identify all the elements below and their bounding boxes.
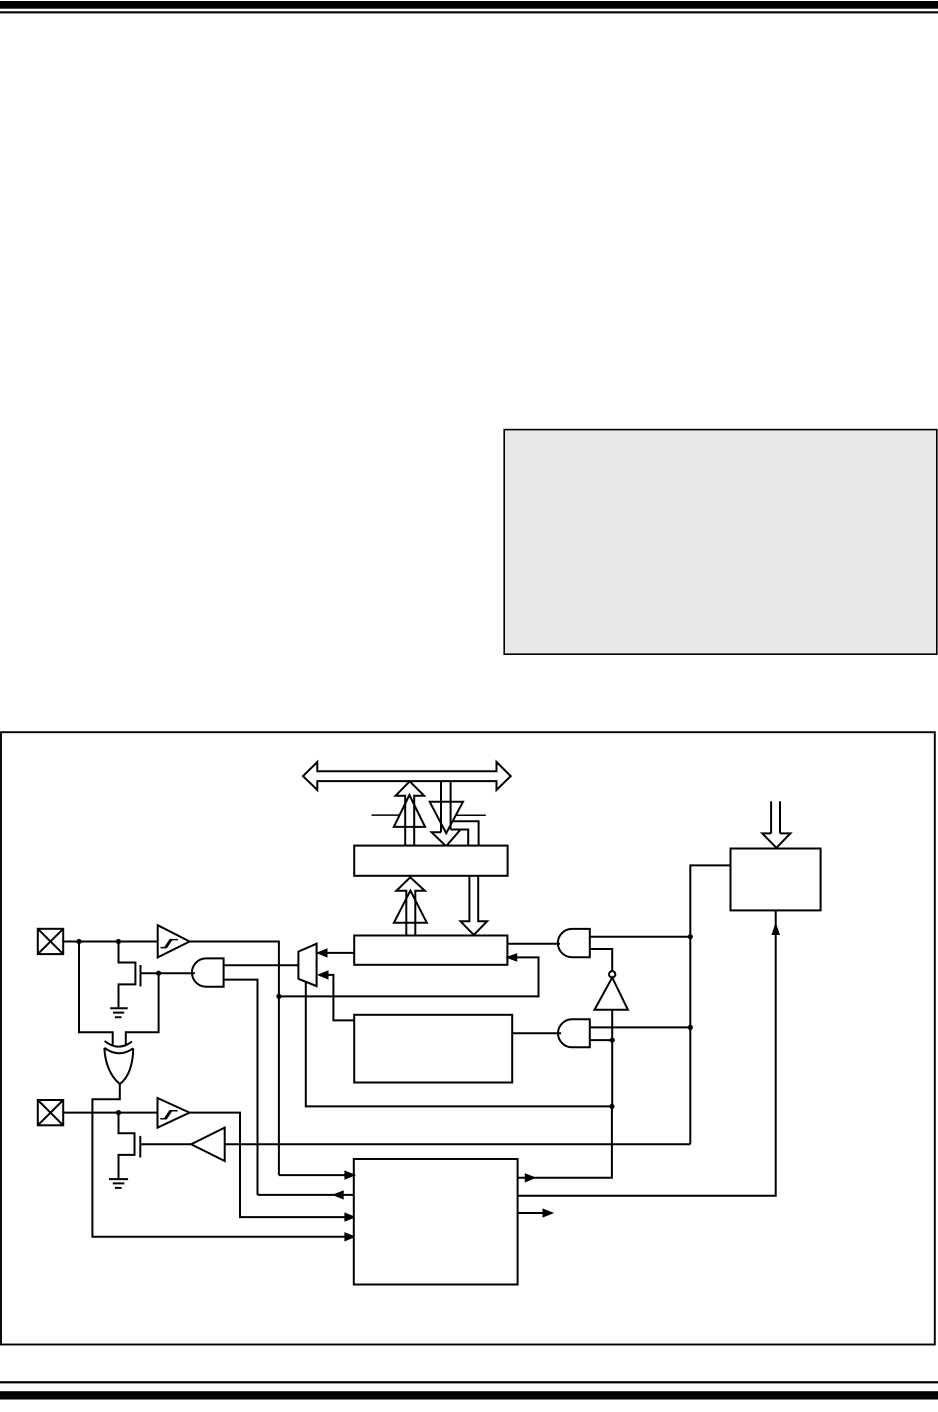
big box: [354, 1159, 518, 1285]
AND top input1 wire: [590, 936, 691, 938]
schmitt1 output wire: [190, 942, 279, 1176]
mux bottom wire to junction: [306, 982, 611, 1107]
arrow left on box line2: [335, 1192, 343, 1198]
note box (gray): [504, 430, 937, 655]
junction dot pin1 b: [116, 939, 121, 944]
wire tris to mux with arrow: [327, 952, 355, 954]
figure frame: [1, 732, 935, 1344]
AND left output wire: [159, 972, 195, 974]
arrow up into right box: [773, 925, 779, 934]
inverter left triangle: [191, 1128, 225, 1161]
RD block arrow head: [432, 830, 461, 847]
pin2 wire: [63, 1112, 157, 1114]
wire from big box up to right box: [518, 910, 776, 1195]
RD enable line: [456, 814, 486, 816]
junction dot and-top in1: [688, 934, 693, 939]
step wire from RD arrow to data latch: [451, 830, 469, 846]
inverter bubble: [609, 971, 615, 977]
arrow into mux input1: [319, 950, 327, 956]
FET2 drain wire: [119, 1113, 135, 1179]
FET1 gate plate: [140, 965, 142, 987]
pin1 wire: [63, 941, 158, 943]
junction dot feedback: [276, 994, 281, 999]
FET2 gate plate: [139, 1136, 141, 1158]
schmitt trigger 1: [158, 925, 190, 957]
wire right box left to vertical rail: [690, 865, 730, 1144]
header thin rule: [0, 11, 938, 13]
junction dot and-bottom in2: [610, 1038, 615, 1043]
schmitt2 output wire: [190, 1113, 354, 1218]
RD buffer triangle: [430, 802, 463, 833]
wire fet1 gate node to xor input: [126, 973, 159, 1044]
WR block arrow up: [396, 781, 425, 845]
AND gate left: [192, 958, 224, 986]
junction dot pin1 a: [76, 939, 81, 944]
WR enable line: [372, 814, 400, 816]
AND left input2 wire: [224, 980, 258, 1195]
arrow r3: [544, 1210, 552, 1216]
data latch box: [354, 846, 507, 876]
FET2 gate wire: [140, 1143, 191, 1145]
arrow into box input3: [345, 1214, 353, 1220]
middle box: [354, 1015, 512, 1083]
junction dot and-bottom in1: [688, 1025, 693, 1030]
data bus double arrow: [303, 762, 511, 790]
vdd input block arrow right line: [779, 801, 781, 833]
tris latch box: [354, 936, 507, 965]
vdd input block arrow (right box): [770, 801, 772, 833]
wire box right1 to rail: [518, 1106, 612, 1177]
arrow into box input4: [345, 1234, 353, 1240]
wire bus to RD stem right: [450, 781, 452, 829]
junction dot mux rail: [609, 1104, 614, 1109]
AND bottom input2 wire: [590, 1039, 612, 1041]
AND bottom input1 wire: [590, 1026, 691, 1028]
schmitt symbol 2: [160, 1111, 177, 1119]
schmitt symbol 1: [161, 940, 178, 948]
xor gate body: [104, 1048, 133, 1084]
AND top output wire to tris: [507, 943, 560, 945]
right block box: [731, 849, 821, 911]
footer thick rule: [0, 1391, 938, 1399]
xor gate input arc: [105, 1041, 132, 1047]
ground 1: [110, 1008, 128, 1017]
schmitt trigger 2: [158, 1098, 190, 1128]
wire box output2 left: [258, 1194, 354, 1196]
wire pin1 node down to xor: [79, 942, 113, 1045]
AND gate U-top: [558, 929, 590, 957]
data latch up block arrow: [396, 877, 425, 935]
AND gate U-bottom: [558, 1019, 590, 1047]
AND top input2 wire: [590, 949, 612, 971]
down block arrow to tris latch: [461, 876, 488, 935]
mux trapezoid: [298, 944, 316, 986]
WR buffer triangle: [394, 795, 425, 827]
vdd arrow head: [762, 833, 790, 847]
FET1 drain wire: [119, 942, 136, 1009]
arrow into box input1: [345, 1172, 353, 1178]
buffer triangle below data latch: [394, 891, 427, 923]
ground 2: [109, 1179, 128, 1188]
arrow into mux input2: [320, 972, 328, 978]
inverter triangle up: [595, 978, 628, 1010]
arrow right on box line r1: [526, 1175, 534, 1181]
pin1 square: [38, 929, 63, 954]
inverter input wire down: [611, 1010, 613, 1107]
AND bottom output wire: [512, 1032, 561, 1034]
pin1 X: [38, 929, 63, 954]
step wire from RD triangle to data latch: [453, 821, 479, 845]
junction dot pin2: [116, 1110, 121, 1115]
arrow into tris right: [508, 955, 516, 961]
wire middle box to mux input2: [328, 975, 355, 1021]
feedback wire from junction to tris: [279, 957, 539, 996]
FET1 gate wire: [141, 972, 159, 974]
pin2 X: [38, 1100, 63, 1125]
pin2 square: [38, 1100, 63, 1125]
xor output wire: [92, 1084, 353, 1237]
AND left input1 from mux: [224, 964, 299, 966]
wire schmitt1 into box input1: [279, 1174, 354, 1176]
box output r3 dangling arrow: [518, 1212, 549, 1214]
footer thin rule: [0, 1381, 938, 1383]
header thick rule: [0, 1, 938, 9]
wire bus to RD stem: [440, 781, 442, 832]
junction dot fet1 gate: [156, 971, 161, 976]
wire inverter input row: [225, 1143, 691, 1145]
